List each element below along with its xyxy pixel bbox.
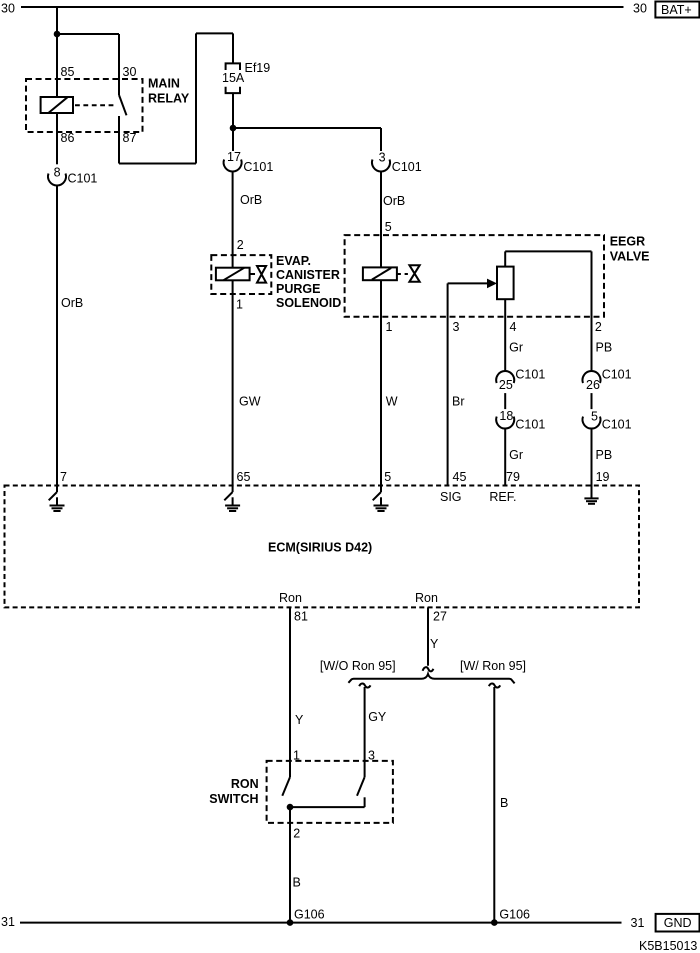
svg-text:PB: PB	[596, 448, 613, 462]
svg-text:45: 45	[453, 470, 467, 484]
svg-text:G106: G106	[294, 908, 325, 922]
svg-text:[W/O Ron 95]: [W/O Ron 95]	[320, 659, 396, 673]
svg-text:27: 27	[433, 610, 447, 624]
svg-text:RON: RON	[231, 777, 259, 791]
svg-text:4: 4	[510, 320, 517, 334]
svg-text:Gr: Gr	[509, 448, 523, 462]
svg-text:65: 65	[237, 470, 251, 484]
svg-text:87: 87	[123, 131, 137, 145]
svg-text:5: 5	[384, 470, 391, 484]
svg-text:18: 18	[499, 409, 513, 423]
svg-text:19: 19	[596, 470, 610, 484]
svg-text:85: 85	[61, 65, 75, 79]
svg-text:REF.: REF.	[489, 490, 516, 504]
svg-text:2: 2	[293, 827, 300, 841]
svg-text:GND: GND	[664, 916, 692, 930]
svg-text:Y: Y	[430, 637, 439, 651]
svg-text:[W/ Ron 95]: [W/ Ron 95]	[460, 659, 526, 673]
svg-text:Br: Br	[452, 395, 465, 409]
svg-text:30: 30	[123, 65, 137, 79]
svg-text:PB: PB	[596, 341, 613, 355]
svg-text:25: 25	[499, 378, 513, 392]
svg-text:2: 2	[237, 238, 244, 252]
svg-text:EEGR: EEGR	[610, 235, 645, 249]
svg-text:15A: 15A	[222, 71, 245, 85]
svg-text:OrB: OrB	[383, 194, 405, 208]
svg-text:17: 17	[227, 150, 241, 164]
svg-text:K5B15013: K5B15013	[639, 939, 697, 953]
svg-text:31: 31	[631, 916, 645, 930]
svg-text:81: 81	[294, 610, 308, 624]
svg-text:B: B	[293, 876, 301, 890]
svg-text:G106: G106	[499, 908, 530, 922]
svg-text:C101: C101	[392, 160, 422, 174]
svg-text:7: 7	[60, 470, 67, 484]
svg-text:Ef19: Ef19	[245, 61, 271, 75]
svg-text:B: B	[500, 796, 508, 810]
svg-text:1: 1	[386, 320, 393, 334]
svg-text:EVAP.: EVAP.	[276, 254, 311, 268]
svg-text:86: 86	[61, 131, 75, 145]
svg-text:30: 30	[1, 2, 15, 16]
svg-text:BAT+: BAT+	[661, 3, 692, 17]
svg-text:Ron: Ron	[415, 591, 438, 605]
svg-text:C101: C101	[515, 368, 545, 382]
svg-text:OrB: OrB	[240, 193, 262, 207]
svg-text:PURGE: PURGE	[276, 282, 320, 296]
svg-text:26: 26	[586, 378, 600, 392]
svg-text:31: 31	[1, 915, 15, 929]
svg-text:VALVE: VALVE	[610, 249, 650, 263]
svg-text:2: 2	[595, 320, 602, 334]
svg-text:C101: C101	[602, 418, 632, 432]
svg-text:SWITCH: SWITCH	[209, 792, 258, 806]
svg-text:Gr: Gr	[509, 341, 523, 355]
svg-text:CANISTER: CANISTER	[276, 268, 340, 282]
svg-text:C101: C101	[602, 368, 632, 382]
svg-text:GW: GW	[239, 395, 261, 409]
svg-text:30: 30	[633, 2, 647, 16]
svg-text:C101: C101	[243, 160, 273, 174]
svg-text:3: 3	[379, 151, 386, 165]
svg-text:Ron: Ron	[279, 591, 302, 605]
svg-text:GY: GY	[368, 710, 387, 724]
svg-text:C101: C101	[68, 172, 98, 186]
svg-text:Y: Y	[295, 713, 304, 727]
svg-text:RELAY: RELAY	[148, 92, 190, 106]
svg-text:SIG: SIG	[440, 490, 462, 504]
svg-text:C101: C101	[515, 418, 545, 432]
svg-text:MAIN: MAIN	[148, 77, 180, 91]
svg-text:W: W	[386, 395, 398, 409]
svg-text:OrB: OrB	[61, 296, 83, 310]
svg-text:8: 8	[54, 166, 61, 180]
svg-text:79: 79	[506, 470, 520, 484]
svg-text:ECM(SIRIUS D42): ECM(SIRIUS D42)	[268, 541, 372, 555]
svg-text:5: 5	[591, 410, 598, 424]
svg-text:SOLENOID: SOLENOID	[276, 296, 341, 310]
svg-text:3: 3	[453, 320, 460, 334]
svg-text:5: 5	[385, 220, 392, 234]
svg-text:1: 1	[236, 298, 243, 312]
